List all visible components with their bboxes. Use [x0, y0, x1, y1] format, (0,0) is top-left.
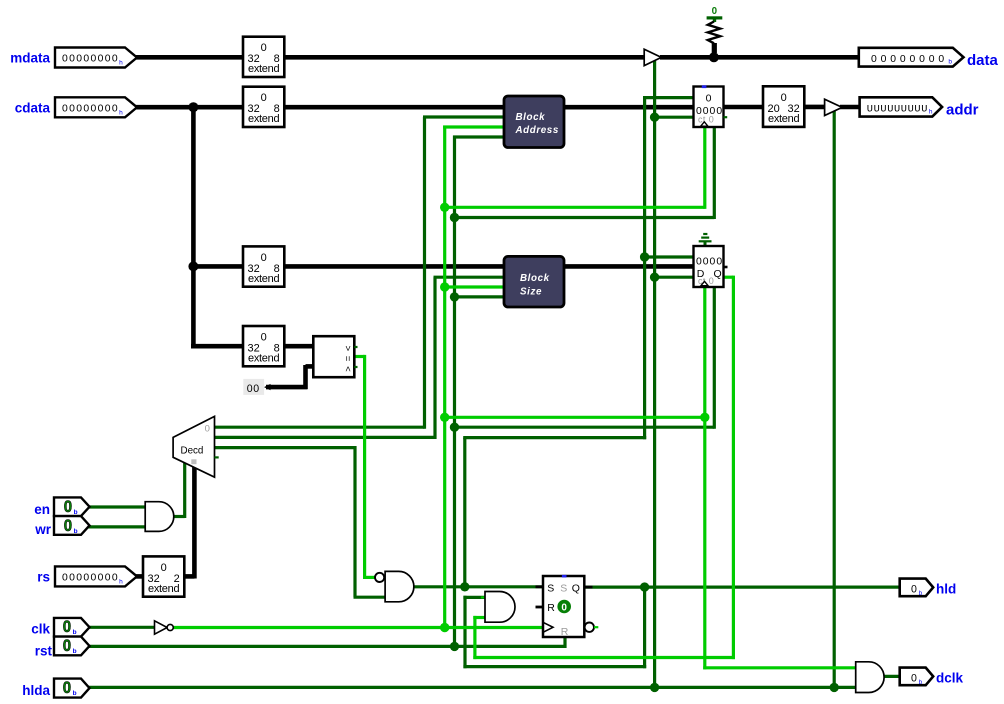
- svg-text:rs: rs: [37, 569, 50, 584]
- wire counter clock riser: [703, 125, 706, 209]
- node Q net junction: [640, 582, 649, 591]
- svg-text:0: 0: [64, 516, 72, 535]
- wire data bus buffer U10 to data pin: [660, 55, 860, 60]
- wire register clock row: [445, 416, 705, 419]
- svg-text:b: b: [73, 629, 77, 636]
- label addr: [946, 101, 979, 118]
- wire Q net riser to AND U16: [463, 596, 486, 668]
- AND gate U16: [485, 592, 515, 623]
- input pin cdata: [55, 97, 137, 117]
- subcircuit Block Size: [504, 256, 564, 307]
- label dclk: [936, 670, 964, 685]
- svg-text:00000000: 00000000: [62, 54, 119, 65]
- wire decoder out2 row: [213, 446, 355, 449]
- tri-state buffer U10 mdata: [644, 49, 661, 65]
- node cdata row3 junction: [188, 261, 198, 271]
- wire S net to register load: [643, 255, 695, 258]
- svg-text:0: 0: [911, 584, 917, 596]
- wire register carry to AND U16: [722, 276, 733, 659]
- wire cdata vertical bus trunk: [191, 107, 196, 346]
- wire rst row net: [87, 645, 565, 648]
- node S net register branch junction: [640, 252, 649, 261]
- node data pullup junction: [709, 52, 719, 62]
- svg-text:b: b: [74, 528, 78, 535]
- wire AND U12 out to decoder enable: [173, 462, 185, 518]
- wire addr buffer U11 control drop: [833, 111, 836, 687]
- svg-text:h: h: [119, 60, 123, 67]
- svg-text:0: 0: [161, 562, 167, 574]
- node rst net junction: [450, 642, 459, 651]
- wire bus extender U5 to comparator A: [283, 344, 315, 349]
- node hlda addr-buffer junction: [830, 683, 839, 692]
- wire wr pin to AND U12: [88, 525, 147, 528]
- svg-text:0: 0: [63, 636, 71, 655]
- wire hlda to register enable: [655, 276, 695, 279]
- resistor R1 pull-up: [707, 18, 723, 53]
- svg-text:0: 0: [63, 617, 71, 636]
- wire clkbar to Block Size: [445, 285, 506, 288]
- AND gate U17 dclk: [856, 662, 884, 693]
- node hlda buffer-control junction: [650, 683, 659, 692]
- svg-text:Block: Block: [516, 112, 546, 123]
- svg-text:0: 0: [261, 92, 267, 104]
- svg-text:0: 0: [64, 497, 72, 516]
- wire bus extender U4 to register via Block Size: [283, 264, 695, 269]
- wire mdata bus pin to extender U2: [136, 55, 245, 60]
- svg-text:extend: extend: [248, 113, 279, 125]
- svg-text:h: h: [119, 578, 123, 585]
- wire rst counter-reset row: [455, 216, 715, 219]
- wire clkbar trunk riser: [443, 126, 446, 630]
- wire S net upper row: [463, 436, 646, 439]
- label rst: [35, 644, 53, 659]
- svg-text:Size: Size: [520, 287, 542, 298]
- svg-text:extend: extend: [148, 583, 179, 595]
- wire rst register-reset row: [455, 426, 715, 429]
- wire AND U16 feed riser: [473, 616, 486, 659]
- wire cdata bus row to extender U5: [191, 344, 245, 349]
- wire clk pin to NOT U13: [87, 626, 156, 629]
- comparator U8: [313, 336, 357, 377]
- svg-text:UUUUUUUUU: UUUUUUUUU: [867, 103, 928, 115]
- svg-text:0: 0: [712, 6, 718, 17]
- svg-text:0: 0: [911, 673, 917, 685]
- wire extender U7 to buffer U11: [803, 105, 826, 110]
- input pin en: [54, 497, 90, 516]
- input pin mdata: [55, 48, 137, 68]
- svg-text:cdata: cdata: [15, 100, 51, 115]
- svg-text:b: b: [73, 648, 77, 655]
- wire cdata bus row to extender U4: [191, 264, 245, 269]
- output pin addr: [860, 97, 943, 116]
- svg-text:clk: clk: [31, 622, 50, 637]
- wire rst to Block Address: [453, 135, 506, 138]
- svg-text:0: 0: [781, 92, 787, 104]
- input pin rs: [55, 566, 137, 586]
- node AND U16 input port tick: [481, 596, 486, 598]
- node cdata tap junction: [188, 102, 198, 112]
- svg-text:>: >: [342, 345, 353, 351]
- label clk: [31, 622, 50, 637]
- node clkbar junction: [440, 623, 449, 632]
- svg-text:b: b: [919, 590, 923, 597]
- ground symbol on register: [699, 234, 712, 247]
- AND gate U12 en-wr: [145, 502, 174, 532]
- svg-text:=: =: [342, 356, 353, 362]
- label cdata: [15, 100, 51, 115]
- wire counter bus out to extender U7: [722, 105, 765, 110]
- svg-text:hlda: hlda: [22, 683, 50, 698]
- node clkbar Block Size junction: [440, 282, 449, 291]
- constant 00: [243, 379, 270, 395]
- wire register clock trunk: [703, 285, 706, 669]
- svg-text:Address: Address: [515, 125, 559, 136]
- wire S net riser: [463, 438, 466, 589]
- svg-text:mdata: mdata: [10, 51, 50, 66]
- wire mdata bus extender U2 to buffer U10: [283, 55, 645, 60]
- wire Q net lower row: [463, 665, 646, 668]
- svg-text:0: 0: [561, 602, 567, 613]
- svg-text:b: b: [919, 679, 923, 686]
- label mdata: [10, 51, 50, 66]
- svg-text:0000: 0000: [696, 256, 723, 267]
- svg-text:S: S: [560, 582, 567, 594]
- svg-text:dclk: dclk: [936, 670, 964, 685]
- wire hlda row net: [87, 686, 857, 689]
- wire rst to Block Size: [455, 295, 507, 298]
- svg-text:00000000: 00000000: [62, 573, 119, 584]
- svg-text:R: R: [561, 626, 569, 638]
- svg-text:Decd: Decd: [181, 445, 204, 456]
- label data: [967, 52, 999, 69]
- node rst counter-reset junction: [450, 213, 459, 222]
- node clkbar counter-clock junction: [440, 203, 449, 212]
- svg-text:0: 0: [706, 93, 712, 105]
- svg-text:S: S: [547, 582, 554, 594]
- wire constant 00 to comparator B: [266, 365, 315, 389]
- wire decoder out1 riser to Block Size: [434, 277, 507, 439]
- svg-text:data: data: [967, 52, 999, 69]
- wire S net : AND U15 out to flip-flop S: [413, 585, 546, 588]
- node hlda counter-enable junction: [650, 113, 659, 122]
- svg-text:en: en: [34, 502, 50, 517]
- input pin rst: [54, 636, 90, 655]
- svg-text:0: 0: [261, 42, 267, 54]
- svg-text:00000000: 00000000: [871, 54, 948, 65]
- wire decoder out0 row: [213, 426, 425, 429]
- svg-text:rst: rst: [35, 644, 53, 659]
- wire S net main riser: [643, 98, 646, 440]
- extender U2 32-to-8: [243, 37, 284, 77]
- constant 0 on resistor: [712, 6, 718, 17]
- svg-text:0: 0: [205, 423, 210, 434]
- node rst Block Size junction: [450, 292, 459, 301]
- svg-text:00000000: 00000000: [62, 104, 119, 115]
- wire cdata bus pin to extender U3: [136, 105, 245, 110]
- label rs: [37, 569, 50, 584]
- node hlda register-enable junction: [650, 273, 659, 282]
- svg-text:0: 0: [63, 678, 71, 697]
- wire comparator EQ drop: [363, 355, 366, 579]
- extender U4 32-to-8: [243, 246, 284, 286]
- wire rs bus pin to extender U6: [136, 574, 145, 579]
- svg-text:<: <: [342, 366, 353, 372]
- NOT gate U13 clk: [155, 621, 174, 634]
- output pin hld: [900, 579, 934, 597]
- node S net junction: [460, 582, 469, 591]
- input pin wr: [54, 516, 90, 535]
- AND gate U15 with inverted input: [375, 571, 414, 601]
- label hld: [936, 581, 956, 596]
- flip-flop U18 SR: [536, 575, 599, 638]
- wire select bus extender U6 to decoder: [182, 466, 194, 579]
- svg-text:extend: extend: [248, 353, 279, 365]
- svg-text:extend: extend: [248, 63, 279, 75]
- svg-text:hld: hld: [936, 581, 956, 596]
- svg-text:b: b: [948, 59, 952, 66]
- svg-text:Q: Q: [714, 268, 722, 280]
- svg-text:addr: addr: [946, 101, 979, 118]
- wire AND U16 feed row: [473, 656, 735, 659]
- wire hlda to counter enable: [655, 116, 695, 119]
- subcircuit Block Address: [504, 96, 564, 148]
- decoder U1 Decd: [173, 416, 219, 477]
- svg-text:extend: extend: [248, 273, 279, 285]
- wire EQ to AND U15 inverted input: [365, 576, 375, 579]
- output pin dclk: [900, 668, 934, 686]
- wire en pin to AND U12: [88, 505, 147, 508]
- svg-text:0: 0: [261, 332, 267, 344]
- wire comparator EQ out: [352, 355, 365, 358]
- wire counter clock row: [445, 206, 705, 209]
- wire decoder out1 row: [213, 436, 435, 439]
- tri-state buffer U11 addr: [825, 99, 843, 115]
- wire Q net : flip-flop Q to hld pin: [583, 585, 901, 588]
- svg-text:0: 0: [261, 252, 267, 264]
- label hlda: [22, 683, 50, 698]
- svg-text:R: R: [547, 602, 555, 614]
- wire clkbar to Block Address: [443, 125, 506, 128]
- register U14: [694, 246, 728, 287]
- extender U5 32-to-8: [243, 326, 284, 366]
- svg-text:extend: extend: [768, 113, 799, 125]
- node rst register-reset junction: [450, 423, 459, 432]
- wire dclk gate upper row: [703, 666, 857, 669]
- wire decoder out0 riser to Block Address: [423, 117, 506, 429]
- input pin hlda: [54, 678, 90, 698]
- svg-text:Block: Block: [520, 273, 550, 284]
- wire hlda control trunk from buffer U10: [653, 61, 656, 687]
- node register clock junction: [700, 413, 709, 422]
- svg-text:h: h: [929, 108, 933, 115]
- wire S net to counter load: [643, 96, 695, 99]
- extender U3 32-to-8: [243, 87, 284, 127]
- wire Q net drop: [643, 586, 646, 669]
- svg-text:Q: Q: [572, 582, 580, 594]
- svg-text:h: h: [119, 109, 123, 116]
- extender U7 20-to-32: [763, 86, 804, 127]
- node clkbar register-clock junction: [440, 413, 449, 422]
- svg-text:00: 00: [247, 383, 260, 395]
- extender U6 32-to-2: [143, 556, 184, 596]
- wire counter reset riser: [713, 125, 716, 219]
- label en: [34, 502, 50, 517]
- wire register reset riser: [713, 285, 716, 429]
- wire clkbar row : NOT U13 to flip-flop clock: [173, 626, 546, 629]
- output pin data: [859, 48, 964, 67]
- wire flip-flop reset riser: [563, 635, 566, 648]
- svg-text:wr: wr: [34, 522, 52, 537]
- wire buffer U11 to addr pin: [840, 105, 860, 110]
- input pin clk: [54, 617, 90, 637]
- register U9 counter: [694, 85, 728, 127]
- wire cdata bus extender U3 to counter via Block Address: [283, 105, 695, 110]
- wire decoder out2 riser to AND U15 lower input: [354, 446, 387, 597]
- wire AND U17 out to dclk pin: [883, 675, 902, 678]
- label wr: [34, 522, 52, 537]
- wire rst trunk riser: [453, 136, 456, 647]
- svg-text:b: b: [73, 690, 77, 697]
